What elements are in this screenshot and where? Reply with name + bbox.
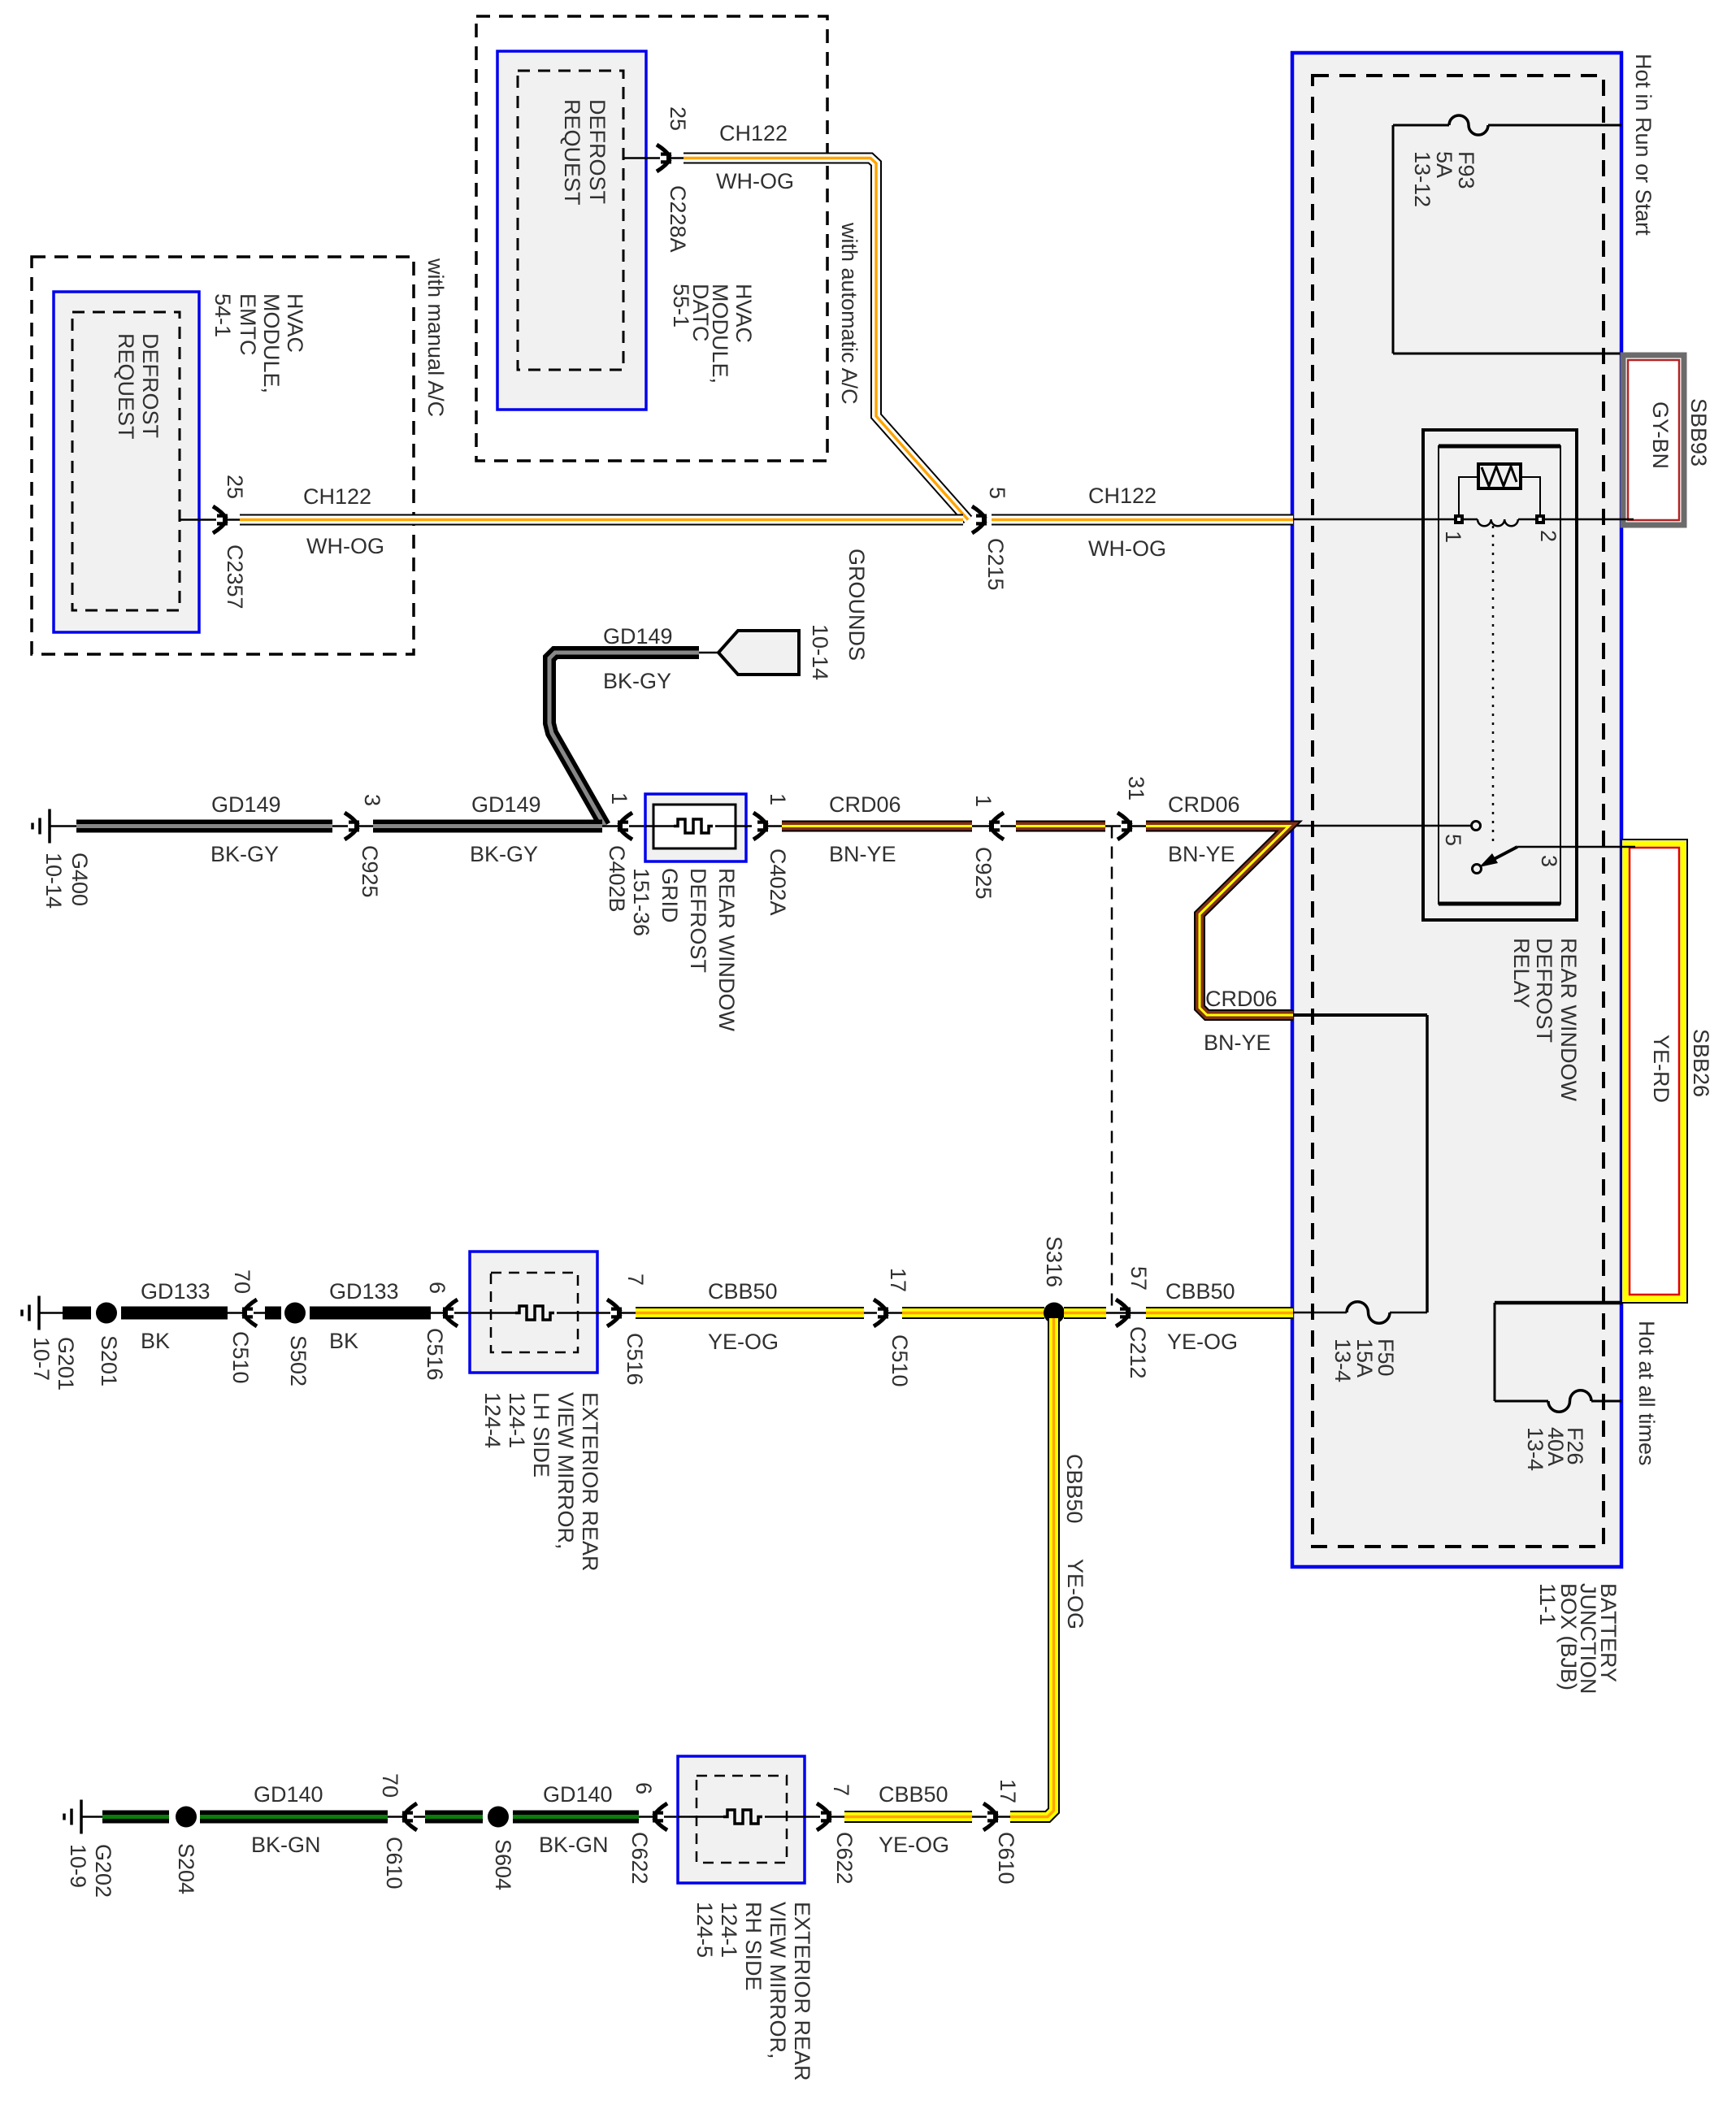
HVAC module EMTC inner dashed box (72, 312, 180, 610)
with manual A/C dashed enclosure (32, 257, 414, 654)
svg-text:55-1: 55-1 (669, 284, 693, 328)
svg-text:BN-YE: BN-YE (829, 842, 896, 866)
LH mirror heating element (515, 1306, 554, 1320)
svg-text:CH122: CH122 (1088, 484, 1157, 508)
svg-text:G400: G400 (67, 853, 92, 906)
svg-text:10-7: 10-7 (29, 1337, 54, 1381)
relay coil terminal 2 (1535, 514, 1545, 524)
wire GD140 BK-GN segment 3 (513, 1811, 639, 1824)
svg-text:HVAC: HVAC (283, 293, 307, 353)
BJB inner dashed border (1313, 76, 1604, 1547)
svg-text:C510: C510 (888, 1334, 912, 1387)
svg-text:EXTERIOR REAR: EXTERIOR REAR (578, 1392, 602, 1572)
svg-text:CBB50: CBB50 (1165, 1279, 1235, 1304)
relay contact pin 5 (1472, 822, 1481, 831)
svg-text:1: 1 (766, 793, 790, 805)
relay resistor (1478, 464, 1521, 488)
connector C2357 arrow pin 25 (213, 506, 227, 533)
svg-text:13-12: 13-12 (1410, 151, 1434, 207)
wire GD149 BK-GY to grounds flag (549, 653, 699, 826)
RH mirror heating element (723, 1810, 762, 1824)
svg-text:C2357: C2357 (223, 545, 247, 610)
svg-text:C212: C212 (1126, 1326, 1150, 1379)
wire from DATC to connector C228A (623, 157, 684, 159)
svg-text:31: 31 (1124, 776, 1148, 801)
exterior rear view mirror LH box (470, 1252, 597, 1373)
svg-text:GD133: GD133 (329, 1279, 399, 1304)
svg-text:124-1: 124-1 (717, 1902, 741, 1958)
svg-text:10-14: 10-14 (808, 624, 832, 680)
svg-text:S201: S201 (97, 1335, 121, 1386)
svg-text:C610: C610 (994, 1832, 1018, 1885)
svg-text:LH SIDE: LH SIDE (529, 1392, 553, 1477)
ground G201 (37, 1296, 41, 1330)
wire CBB50 YE-OG segment 2 (902, 1307, 1044, 1319)
svg-text:10-9: 10-9 (66, 1844, 90, 1888)
svg-text:VIEW MIRROR,: VIEW MIRROR, (766, 1902, 790, 2059)
svg-text:RH SIDE: RH SIDE (741, 1902, 766, 1991)
svg-text:GROUNDS: GROUNDS (844, 549, 869, 661)
svg-text:13-4: 13-4 (1523, 1427, 1547, 1471)
splice arrow C215 pin 5 (972, 506, 986, 533)
wire GD149 BK-GY segment 2 (373, 820, 602, 833)
svg-text:70: 70 (230, 1269, 254, 1294)
svg-text:CH122: CH122 (303, 484, 371, 509)
svg-text:BK: BK (329, 1329, 358, 1353)
svg-text:C610: C610 (382, 1837, 406, 1890)
wire from EMTC to connector C2357 (180, 518, 240, 521)
svg-text:BK: BK (141, 1329, 170, 1353)
svg-text:7: 7 (829, 1784, 853, 1796)
svg-text:C215: C215 (983, 538, 1008, 591)
svg-text:F93: F93 (1454, 151, 1478, 189)
svg-text:S204: S204 (174, 1843, 198, 1894)
wire CH122 WH-OG from C2357 to C215 (240, 514, 963, 526)
svg-text:25: 25 (666, 106, 690, 131)
svg-text:S502: S502 (286, 1335, 310, 1386)
with automatic A/C dashed enclosure (476, 16, 827, 461)
svg-text:SBB26: SBB26 (1689, 1029, 1713, 1097)
svg-text:GD149: GD149 (603, 624, 673, 649)
relay inner box (1439, 446, 1560, 904)
svg-text:70: 70 (378, 1773, 402, 1798)
svg-text:SBB93: SBB93 (1686, 398, 1711, 466)
svg-text:13-4: 13-4 (1330, 1339, 1355, 1382)
svg-text:GD140: GD140 (543, 1782, 613, 1807)
RH mirror wire through (678, 1816, 724, 1818)
svg-text:BK-GY: BK-GY (210, 842, 279, 866)
connector C516 arrow pin 6 (GD133) (431, 1312, 470, 1314)
svg-text:11-1: 11-1 (1535, 1583, 1560, 1625)
svg-text:C622: C622 (627, 1832, 652, 1885)
wire GD140 BK-GN segment 1 (200, 1811, 388, 1824)
connector C925 arrow pin 3 (GD149) (332, 825, 373, 827)
svg-text:1: 1 (971, 795, 996, 807)
relay pin 5 wire to CRD06 (1289, 825, 1472, 827)
connector C212 arrow pin 57 (1116, 1299, 1130, 1326)
wire GD133 BK segment 0 (39, 1312, 63, 1314)
svg-text:GY-BN: GY-BN (1648, 401, 1673, 469)
svg-text:151-36: 151-36 (629, 868, 653, 936)
grid heating element (674, 819, 713, 833)
svg-text:REQUEST: REQUEST (114, 333, 138, 440)
svg-text:17: 17 (996, 1779, 1020, 1803)
svg-text:RELAY: RELAY (1509, 938, 1534, 1009)
svg-text:5A: 5A (1432, 151, 1456, 178)
wire GD149 BK-GY segment 1 (50, 825, 76, 827)
svg-text:Hot at all times: Hot at all times (1634, 1321, 1659, 1466)
svg-text:EXTERIOR REAR: EXTERIOR REAR (790, 1902, 814, 2081)
svg-text:10-14: 10-14 (41, 853, 66, 909)
splice arrow C510 pin 17 (CBB50) (864, 1312, 902, 1314)
rear window defrost grid box (645, 794, 746, 861)
svg-text:S316: S316 (1042, 1236, 1066, 1287)
svg-text:CBB50: CBB50 (708, 1279, 778, 1304)
svg-text:3: 3 (360, 794, 384, 806)
svg-text:YE-OG: YE-OG (1063, 1559, 1087, 1629)
connector C510 arrow pin 70 (GD133) (228, 1312, 265, 1314)
svg-text:GD140: GD140 (254, 1782, 323, 1807)
svg-text:15A: 15A (1352, 1339, 1377, 1378)
svg-text:CRD06: CRD06 (1205, 987, 1278, 1011)
wire CH122 WH-OG from C228A to C215 (684, 158, 968, 520)
svg-text:BK-GY: BK-GY (603, 669, 671, 693)
relay coil feed wire CH122 inside BJB (1293, 518, 1454, 521)
ground G400 (48, 809, 51, 844)
wire GD133 BK segment 3 (310, 1307, 431, 1320)
svg-text:DEFROST: DEFROST (1532, 938, 1556, 1043)
svg-text:2: 2 (1536, 530, 1560, 542)
svg-text:with manual A/C: with manual A/C (423, 258, 448, 417)
LH mirror wire through (470, 1312, 516, 1314)
svg-text:CBB50: CBB50 (1062, 1454, 1087, 1524)
svg-text:BK-GN: BK-GN (251, 1833, 321, 1857)
connector C228A arrow pin 25 (657, 145, 671, 171)
svg-text:HVAC: HVAC (731, 284, 756, 343)
splice S204 (176, 1807, 197, 1828)
svg-text:CBB50: CBB50 (879, 1782, 948, 1807)
relay actuation dotted line (1492, 526, 1495, 841)
connector C402A arrow pin 1 (753, 813, 767, 840)
svg-text:DEFROST: DEFROST (585, 99, 610, 204)
svg-text:YE-OG: YE-OG (879, 1833, 949, 1857)
fuse F26 40A circuit (1495, 1301, 1622, 1305)
relay coil (1464, 518, 1478, 521)
svg-text:C402B: C402B (605, 845, 629, 913)
relay resistor leads (1459, 477, 1478, 514)
svg-text:REQUEST: REQUEST (560, 99, 584, 206)
bus bar SBB26 YE-RD (1621, 840, 1687, 1303)
connector C610 arrow pin 17 (CBB50 RH) (972, 1816, 1010, 1818)
fuse F93 5A circuit loop (1392, 125, 1395, 354)
svg-text:REAR WINDOW: REAR WINDOW (714, 868, 739, 1032)
battery junction box (BJB) outline (1292, 53, 1621, 1567)
HVAC module EMTC box (54, 292, 199, 632)
svg-text:YE-OG: YE-OG (1167, 1330, 1238, 1354)
svg-text:DEFROST: DEFROST (138, 333, 163, 438)
wire CRD06 BN-YE segment 3 with bend into BJB (1146, 827, 1293, 1016)
connector C402B arrow pin 1 (602, 825, 645, 827)
svg-text:124-5: 124-5 (692, 1902, 717, 1958)
wire CBB50 YE-OG segment 3 (1064, 1307, 1106, 1319)
relay coil terminal 1 (1454, 514, 1464, 524)
HVAC module DATC inner dashed box (518, 71, 623, 370)
svg-text:6: 6 (631, 1782, 656, 1794)
svg-text:C402A: C402A (766, 848, 790, 916)
svg-text:GRID: GRID (658, 868, 682, 923)
grid wire through (645, 825, 675, 827)
svg-text:124-1: 124-1 (505, 1392, 529, 1448)
splice S316 (1044, 1303, 1065, 1324)
wire CH122 WH-OG from C215 into BJB (992, 514, 1293, 526)
rear window defrost relay outer box (1423, 430, 1577, 920)
svg-text:WH-OG: WH-OG (716, 169, 794, 193)
wire GD133 BK segment 2 (265, 1307, 281, 1320)
svg-text:3: 3 (1537, 855, 1561, 867)
connector C622 arrow pin 7 (CBB50) (817, 1803, 831, 1830)
svg-text:BN-YE: BN-YE (1204, 1030, 1271, 1055)
svg-text:YE-RD: YE-RD (1649, 1035, 1673, 1103)
wire GD133 BK segment 1 (121, 1307, 228, 1320)
relay switch armature (1473, 865, 1482, 874)
svg-text:BK-GN: BK-GN (539, 1833, 609, 1857)
grounds reference flag 10-14 (699, 652, 718, 654)
wire CBB50 YE-OG segment 1 (636, 1307, 864, 1319)
connector dashed line C212 (1111, 827, 1113, 1307)
svg-text:GD149: GD149 (471, 792, 541, 817)
splice S604 (488, 1807, 509, 1828)
svg-text:54-1: 54-1 (210, 293, 235, 337)
wire CBB50 YE-OG segment 4 into BJB (1106, 1312, 1146, 1314)
exterior rear view mirror RH box (678, 1756, 805, 1883)
svg-text:Hot in Run or Start: Hot in Run or Start (1631, 54, 1656, 236)
svg-text:57: 57 (1126, 1266, 1151, 1291)
svg-text:CH122: CH122 (719, 121, 788, 145)
splice S502 (284, 1303, 306, 1324)
svg-text:5: 5 (1441, 834, 1465, 846)
svg-text:C510: C510 (228, 1331, 253, 1384)
svg-text:CRD06: CRD06 (829, 792, 901, 817)
svg-text:YE-OG: YE-OG (708, 1330, 779, 1354)
svg-text:BN-YE: BN-YE (1168, 842, 1235, 866)
svg-text:6: 6 (425, 1282, 449, 1294)
svg-text:C925: C925 (971, 847, 996, 900)
svg-text:25: 25 (223, 475, 247, 499)
svg-text:124-4: 124-4 (480, 1392, 505, 1448)
svg-text:with automatic A/C: with automatic A/C (837, 222, 861, 405)
wire CBB50 YE-OG vertical from S316 to RH mirror circuit (1010, 1318, 1054, 1817)
svg-text:CRD06: CRD06 (1168, 792, 1240, 817)
svg-text:7: 7 (623, 1273, 648, 1286)
svg-text:REAR WINDOW: REAR WINDOW (1556, 938, 1581, 1102)
connector C622 arrow pin 6 (GD140) (639, 1816, 678, 1818)
svg-text:WH-OG: WH-OG (306, 534, 384, 558)
svg-text:VIEW MIRROR,: VIEW MIRROR, (553, 1392, 578, 1550)
wire CBB50 YE-OG RH segment (844, 1811, 972, 1823)
svg-text:C622: C622 (832, 1832, 857, 1885)
svg-text:17: 17 (886, 1268, 910, 1292)
bus bar SBB93 GY-BN (1623, 355, 1684, 525)
wire GD140 BK-GN segment 2 (425, 1811, 483, 1824)
svg-text:G201: G201 (54, 1337, 78, 1391)
ground G202 (80, 1800, 83, 1834)
CRD06 feed inside BJB to F50 (1293, 1013, 1427, 1017)
svg-text:DEFROST: DEFROST (686, 868, 710, 973)
splice S201 (96, 1303, 117, 1324)
svg-text:C516: C516 (423, 1328, 447, 1381)
svg-text:BK-GY: BK-GY (470, 842, 538, 866)
connector C212 arrow pin 31 (1105, 825, 1146, 827)
svg-text:1: 1 (1441, 531, 1465, 543)
connector C516 arrow pin 7 (CBB50) (607, 1299, 621, 1326)
svg-text:C516: C516 (623, 1333, 647, 1386)
fuse F50 15A circuit (1293, 1312, 1347, 1314)
svg-text:5: 5 (985, 487, 1009, 499)
svg-text:S604: S604 (491, 1839, 515, 1890)
wire CRD06 BN-YE segment 2 (1016, 821, 1105, 832)
wire GD140 BK-GN segment 0 (81, 1816, 102, 1818)
svg-text:GD133: GD133 (141, 1279, 210, 1304)
svg-text:G202: G202 (91, 1844, 115, 1898)
svg-text:MODULE,: MODULE, (259, 293, 284, 393)
HVAC module DATC box (497, 51, 646, 410)
relay pin 3 wire (1517, 846, 1635, 848)
svg-text:GD149: GD149 (211, 792, 281, 817)
connector C610 arrow pin 70 (GD140) (388, 1816, 425, 1818)
svg-text:EMTC: EMTC (236, 293, 260, 356)
svg-text:WH-OG: WH-OG (1088, 536, 1166, 561)
svg-text:C228A: C228A (666, 185, 690, 253)
svg-text:C925: C925 (358, 845, 382, 898)
svg-text:1: 1 (607, 792, 631, 805)
fuse F93 element (1449, 115, 1488, 135)
wire CRD06 BN-YE segment 1 (768, 825, 782, 827)
splice arrow C925 pin 1 (CRD06) (972, 825, 1016, 827)
